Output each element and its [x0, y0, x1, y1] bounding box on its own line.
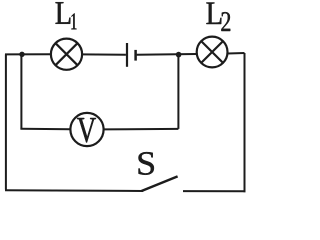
label L2: letter L — [206, 3, 221, 25]
label L2: subscript 2 — [221, 12, 230, 31]
wire voltmeter left — [20, 128, 70, 131]
label S for switch — [139, 152, 154, 175]
wire L2 to top-right corner — [228, 52, 245, 55]
wire left outer vertical — [5, 54, 7, 189]
wire bottom-left segment — [5, 189, 143, 192]
node A junction dot — [19, 52, 24, 57]
voltmeter letter V — [77, 118, 96, 143]
lamp L1 — [51, 39, 82, 70]
wire right vertical — [244, 53, 246, 192]
battery cell: short plate — [134, 50, 137, 61]
label L1: subscript 1 — [71, 13, 76, 29]
wire inner-left vertical from node A — [20, 54, 22, 128]
lamp L2 — [197, 37, 228, 68]
wire inner-right vertical from node B — [177, 55, 179, 129]
label L1: letter L — [56, 2, 71, 24]
wire bottom-right segment — [183, 190, 246, 192]
wire top-left horizontal — [5, 53, 51, 55]
node B junction dot — [176, 52, 182, 58]
voltmeter U1 circle — [70, 113, 103, 146]
battery cell: long plate — [126, 43, 128, 67]
switch S lever — [142, 176, 178, 191]
wire battery to L2 — [137, 53, 197, 56]
wire voltmeter right — [104, 128, 179, 131]
wire L1 to battery — [82, 53, 126, 55]
